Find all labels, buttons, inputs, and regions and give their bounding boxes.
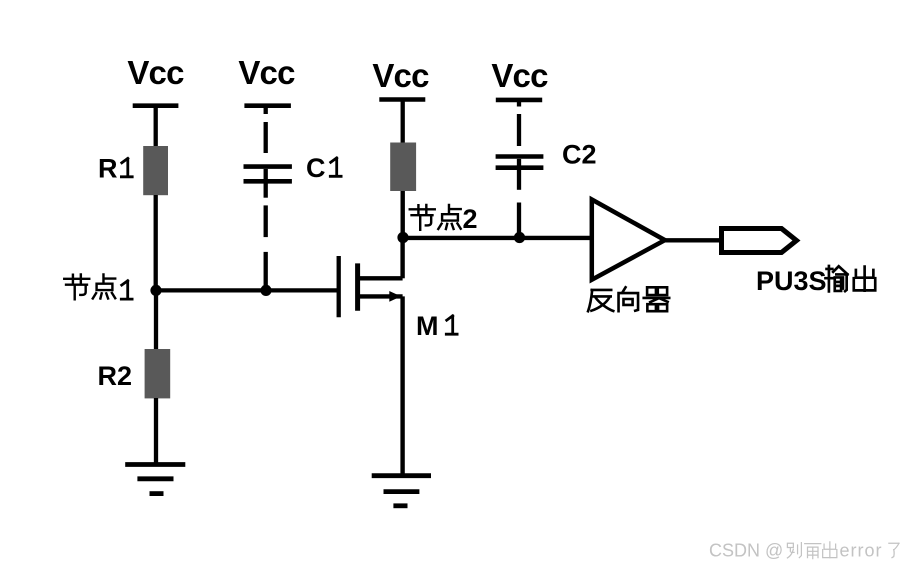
wire node1 to gate: [156, 288, 338, 292]
node A node1 junction dot: [150, 285, 161, 296]
resistor R1: [143, 146, 168, 195]
wire drain up to node2: [400, 238, 404, 279]
resistor (drain pull-up): [390, 143, 416, 192]
ground (right): [372, 476, 431, 506]
svg-text:C2: C2: [562, 140, 597, 170]
watermark CSDN: [709, 541, 783, 561]
label 反向器: [588, 287, 669, 311]
node C1 junction dot: [260, 285, 271, 296]
transistor M1 drain lead: [358, 276, 403, 280]
Vcc power bar 4: [496, 98, 542, 103]
label 节点2: [410, 205, 461, 230]
wire inverter to output: [665, 238, 722, 242]
label 节点1: [64, 275, 115, 300]
resistor R2: [145, 349, 171, 398]
wire node2 to inverter: [403, 236, 591, 240]
svg-text:Vcc: Vcc: [127, 54, 184, 91]
ground (left): [125, 465, 185, 494]
svg-text:R: R: [98, 154, 118, 184]
Vcc power bar 1: [133, 103, 179, 108]
svg-text:Vcc: Vcc: [372, 57, 429, 94]
wire dashed Vcc4 to C2: [517, 100, 521, 146]
transistor M1 source arrow: [389, 291, 401, 302]
transistor M1 source lead: [358, 294, 403, 298]
svg-text:error: error: [840, 541, 883, 561]
output connector PU3S: [722, 229, 797, 253]
svg-text:CSDN @: CSDN @: [709, 541, 783, 561]
svg-text:C: C: [306, 153, 326, 183]
wire dashed Vcc2 to C1: [264, 106, 268, 153]
capacitor C2: [496, 157, 544, 168]
capacitor C1: [244, 167, 292, 182]
wire node1 to R2: [154, 290, 158, 350]
Vcc power bar 3: [379, 97, 425, 102]
svg-text:PU3S: PU3S: [756, 266, 827, 296]
svg-text:Vcc: Vcc: [238, 54, 295, 91]
op-amp U1 inverter triangle: [592, 200, 665, 280]
wire resistor to node2: [401, 191, 405, 238]
svg-text:R2: R2: [98, 361, 133, 391]
wire dashed C2 to node2 wire: [517, 203, 521, 238]
wire source down to ground: [400, 296, 404, 475]
svg-text:Vcc: Vcc: [491, 57, 548, 94]
transistor M1 gate bar: [337, 256, 341, 317]
wire Vcc3 to resistor: [401, 100, 405, 144]
wire R1 to node1: [154, 195, 158, 290]
svg-text:2: 2: [463, 204, 478, 234]
Vcc power bar 2: [244, 103, 291, 108]
wire dashed C1 to node1 wire: [264, 205, 268, 290]
wire Vcc1 to R1: [154, 106, 158, 147]
transistor M1 channel bar: [355, 263, 360, 310]
svg-text:M: M: [416, 311, 439, 341]
wire R2 to ground: [154, 398, 158, 465]
node node2 junction dot: [397, 232, 408, 243]
node C2 junction dot: [514, 232, 525, 243]
